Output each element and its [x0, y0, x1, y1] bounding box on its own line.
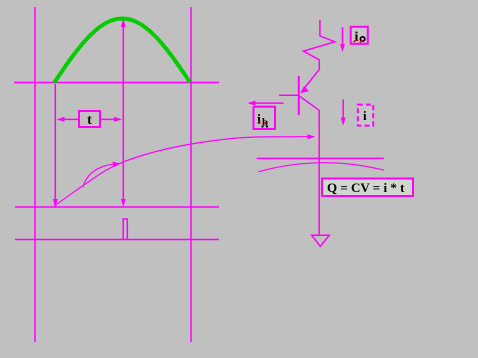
horizontal baseline axis	[14, 82, 219, 84]
i label box	[358, 105, 373, 126]
i_b label box	[254, 107, 276, 129]
transistor Q1 arrowhead at base	[300, 86, 309, 94]
svg-text:t: t	[87, 113, 92, 128]
charging curve with arrow	[54, 134, 316, 206]
vertical axis line right	[190, 7, 192, 342]
i_c current arrow	[340, 27, 345, 52]
transistor Q1 emitter lead	[300, 97, 319, 111]
capacitor C curved plate	[258, 163, 383, 172]
t dimension right arrow	[100, 117, 122, 122]
wire from emitter to ground	[318, 110, 320, 235]
amplitude dimension arrow (double-headed)	[121, 19, 126, 207]
curved annotation arrow	[83, 162, 121, 187]
svg-text:i: i	[257, 113, 261, 128]
svg-text:i: i	[363, 108, 367, 123]
transistor Q1 base bar	[298, 76, 300, 115]
transistor Q1 base lead	[279, 94, 298, 96]
t dimension left arrow	[57, 117, 80, 122]
green half-sine current waveform	[54, 19, 190, 84]
i current arrow	[341, 100, 346, 126]
svg-text:i: i	[355, 30, 359, 45]
ground	[312, 235, 330, 246]
formula box Q = CV = i * t	[322, 179, 413, 197]
svg-text:Q = CV = i * t: Q = CV = i * t	[327, 180, 405, 195]
i_c label box	[351, 27, 368, 45]
capacitor C top plate	[257, 157, 384, 159]
vertical axis line left	[34, 7, 36, 342]
dimension line at t start	[53, 84, 58, 207]
narrow current pulse	[123, 219, 127, 240]
transistor Q1 collector zigzag lead	[302, 20, 335, 91]
i_b current arrow	[248, 101, 284, 106]
horizontal line middle	[15, 206, 219, 208]
label t box	[79, 111, 100, 128]
horizontal line lower	[15, 239, 219, 241]
